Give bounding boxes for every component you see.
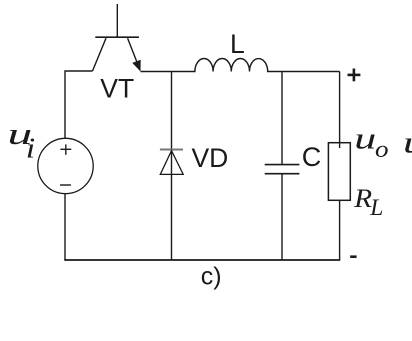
svg-text:c): c) xyxy=(201,263,222,291)
svg-text:VD: VD xyxy=(192,143,229,173)
svg-text:L: L xyxy=(369,195,383,221)
svg-text:L: L xyxy=(230,29,245,59)
svg-text:VT: VT xyxy=(100,73,134,103)
svg-text:C: C xyxy=(302,142,322,172)
svg-text:u: u xyxy=(403,126,412,160)
svg-text:i: i xyxy=(26,132,36,163)
svg-text:u: u xyxy=(354,121,376,155)
svg-text:o: o xyxy=(375,136,389,163)
